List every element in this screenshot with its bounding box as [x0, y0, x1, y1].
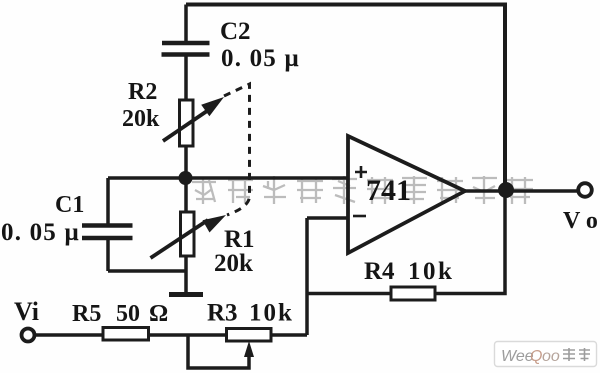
- svg-text:Q: Q: [530, 348, 542, 365]
- svg-text:R5: R5: [72, 301, 101, 327]
- WeeQoo维库 watermark box: [495, 342, 597, 367]
- capacitor C2: [162, 43, 210, 55]
- plus input sign: [355, 166, 367, 178]
- wire node A to R1: [184, 178, 188, 213]
- wire op-amp output: [465, 189, 578, 193]
- R2 arrow: [163, 97, 224, 141]
- resistor R2 (variable): [180, 100, 194, 146]
- wire bottom input: [35, 333, 307, 337]
- ground: [169, 292, 203, 297]
- svg-text:C1: C1: [55, 192, 84, 218]
- wire C1 branch bottom horizontal: [108, 269, 186, 273]
- wire R4 left: [307, 292, 391, 296]
- dashed gang coupling line: [224, 84, 250, 215]
- terminal Vi: [22, 329, 35, 342]
- R3 wiper arrow: [244, 341, 254, 357]
- terminal Vo: [578, 183, 592, 197]
- resistor R1 (variable): [181, 212, 195, 256]
- wire node A to C1 branch: [108, 176, 186, 180]
- wire C1 branch vertical top: [106, 178, 110, 224]
- wire op-amp - input: [307, 216, 348, 220]
- svg-text:10k: 10k: [408, 258, 454, 285]
- wire node A to op-amp + input: [186, 176, 348, 180]
- wire C2 to R2: [184, 56, 188, 101]
- node A junction dot: [179, 171, 193, 185]
- svg-text:20k: 20k: [214, 250, 253, 277]
- svg-text:10k: 10k: [249, 300, 294, 327]
- wire feedback vertical: [305, 218, 309, 335]
- svg-text:741: 741: [366, 174, 411, 207]
- svg-text:0. 05 μ: 0. 05 μ: [1, 219, 80, 246]
- svg-text:C2: C2: [220, 18, 251, 45]
- resistor R3 (pot): [227, 329, 272, 342]
- wire R3 wiper loop: [188, 335, 249, 368]
- watermark 杭州将睿科技有限公司 (fake glyph strokes): [192, 176, 533, 204]
- wire C1 branch vertical bottom: [106, 240, 110, 271]
- svg-text:50: 50: [116, 301, 140, 327]
- svg-text:V o: V o: [563, 208, 598, 234]
- svg-text:Wee: Wee: [501, 348, 534, 365]
- svg-text:R2: R2: [128, 79, 157, 105]
- capacitor C1: [82, 226, 133, 239]
- resistor R5: [103, 328, 149, 341]
- svg-text:R4: R4: [364, 258, 395, 285]
- svg-text:Vi: Vi: [14, 297, 39, 326]
- svg-text:20k: 20k: [122, 106, 160, 132]
- svg-text:R3: R3: [207, 300, 238, 327]
- wire R4 right: [435, 186, 505, 294]
- svg-text:Ω: Ω: [149, 301, 168, 327]
- minus input sign: [353, 215, 366, 218]
- R1 arrow: [151, 215, 227, 258]
- wire R1 to ground: [184, 256, 188, 293]
- resistor R4: [391, 287, 435, 300]
- wire top loop: [186, 5, 505, 187]
- svg-text:oo: oo: [542, 348, 560, 365]
- op-amp U1 741: [348, 136, 465, 253]
- svg-text:R1: R1: [224, 226, 255, 253]
- wire C2 top stem: [184, 5, 188, 42]
- svg-text:0. 05 μ: 0. 05 μ: [221, 45, 300, 72]
- output node dot: [498, 182, 514, 198]
- wire R2 to node A: [184, 146, 188, 178]
